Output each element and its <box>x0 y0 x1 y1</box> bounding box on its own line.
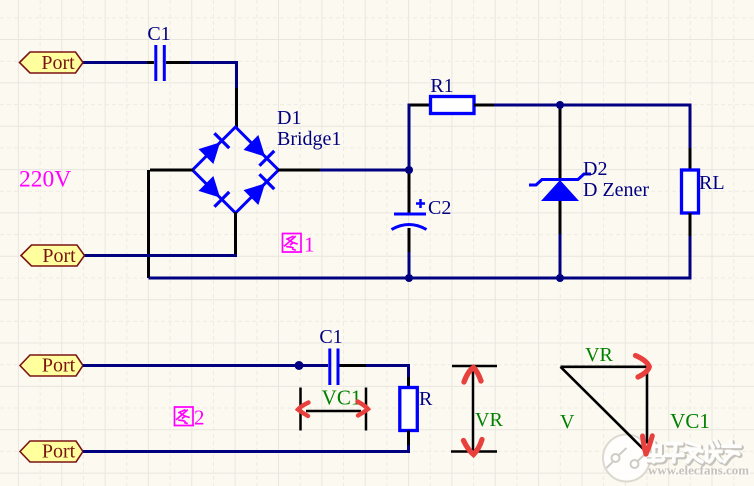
label D Zener <box>583 179 649 201</box>
junction D2 top node <box>556 101 564 109</box>
wire C1 to bridge top <box>190 63 237 91</box>
svg-text:C1: C1 <box>319 326 342 348</box>
resistor R1 <box>431 97 475 114</box>
svg-text:D1: D1 <box>277 107 301 129</box>
wire R1 to RL top rail <box>494 104 690 107</box>
vector line V diagonal <box>561 367 646 451</box>
svg-text:C2: C2 <box>428 197 451 219</box>
vector line VC1 <box>646 367 649 444</box>
pin bridge left <box>150 169 193 172</box>
svg-text:VR: VR <box>585 344 613 366</box>
wire C1b to R corner <box>366 366 409 378</box>
diode top-left <box>199 133 230 164</box>
junction C2 bottom node <box>405 274 413 282</box>
VC1 measure right bar <box>365 388 368 431</box>
port Port2 <box>21 245 85 267</box>
label tu2 (figure 2) <box>174 407 195 426</box>
port Port4 <box>20 441 83 463</box>
pin C2 bottom + wire to rail <box>408 228 411 278</box>
VR measure vertical <box>472 366 475 452</box>
capacitor C1 (bottom) <box>330 349 366 386</box>
label VC1 (bottom circuit) <box>322 386 362 410</box>
VC1 measure line <box>306 410 361 413</box>
label VR (dimension) <box>475 409 503 431</box>
wire RL branch top <box>689 104 692 149</box>
wire Port2 to bridge bottom <box>84 254 237 257</box>
diode bottom-right <box>244 174 275 205</box>
bridge rectifier D1 <box>193 127 279 213</box>
svg-text:1: 1 <box>304 233 315 257</box>
svg-text:Port: Port <box>42 441 76 463</box>
svg-text:VR: VR <box>475 409 503 431</box>
line bridge left down to rail <box>147 170 150 278</box>
red arrow VR top <box>464 368 481 383</box>
red arrow VR bottom <box>464 440 483 455</box>
wire Port1 to C1 <box>83 61 154 64</box>
VR measure bottom bar <box>451 450 497 453</box>
pin RL top <box>689 148 692 170</box>
svg-text:VC1: VC1 <box>322 386 362 410</box>
red arrow VC1 left <box>298 403 309 417</box>
svg-text:RL: RL <box>699 172 725 194</box>
svg-text:V: V <box>560 411 575 433</box>
port Port3 <box>20 355 83 377</box>
label RL <box>699 172 725 194</box>
pin C2 top <box>408 170 411 213</box>
label VC1 (vector) <box>670 409 710 433</box>
pin R bottom <box>407 431 410 446</box>
red arrow vector VC1 end <box>643 436 653 454</box>
svg-text:VC1: VC1 <box>670 409 710 433</box>
pin D2 bottom + wire <box>559 201 562 278</box>
svg-text:Port: Port <box>41 52 75 74</box>
port Port1 <box>20 52 84 74</box>
pin bridge bottom <box>234 212 237 255</box>
resistor RL <box>682 170 699 213</box>
resistor R <box>400 388 418 431</box>
pin D2 top <box>559 105 562 179</box>
label D1 <box>277 107 301 129</box>
svg-text:Port: Port <box>42 245 76 267</box>
wire Port3 to C1b <box>83 364 328 367</box>
label R <box>419 388 433 410</box>
VR measure top bar <box>452 365 497 368</box>
capacitor C1 (top) <box>147 45 190 81</box>
svg-text:2: 2 <box>194 406 205 430</box>
label Bridge1 <box>277 128 341 150</box>
label tu1 (figure 1) <box>282 234 303 253</box>
svg-text:220V: 220V <box>19 167 71 193</box>
pin bridge top <box>235 88 238 128</box>
svg-text:Bridge1: Bridge1 <box>277 128 341 150</box>
svg-text:D2: D2 <box>583 158 607 180</box>
zener diode D2 <box>529 174 591 201</box>
label C2 <box>428 197 451 219</box>
wire bridge right to C2 node <box>320 169 409 172</box>
diode bottom-left <box>199 176 230 207</box>
svg-text:Port: Port <box>42 355 76 377</box>
svg-text:D Zener: D Zener <box>583 179 649 201</box>
pin bridge right <box>278 169 320 172</box>
junction D2 bottom node <box>556 274 564 282</box>
svg-text:R: R <box>419 388 433 410</box>
svg-text:C1: C1 <box>147 23 170 45</box>
pin R top <box>407 377 410 388</box>
label R1 <box>430 75 453 97</box>
diode top-right <box>244 135 275 166</box>
label V (vector) <box>560 411 575 433</box>
wire bottom rail (top circuit) <box>149 277 691 280</box>
label C1 bottom <box>319 326 342 348</box>
red arrow vector VR end <box>636 356 650 378</box>
label C1 top <box>147 23 170 45</box>
label VR (vector) <box>585 344 613 366</box>
junction C2 top node <box>405 166 413 174</box>
VC1 measure left bar <box>299 388 302 431</box>
pin R1 right <box>474 104 494 107</box>
pin RL bottom + wire <box>689 213 692 280</box>
capacitor C2 polarized <box>392 199 427 230</box>
red arrow VC1 right <box>358 402 369 416</box>
watermark logo + text <box>603 435 751 482</box>
svg-text:www.elecfans.com: www.elecfans.com <box>648 463 749 478</box>
wire R bottom to rail <box>83 445 409 452</box>
label D2 <box>583 158 607 180</box>
svg-text:R1: R1 <box>430 75 453 97</box>
pin R1 left <box>410 104 431 107</box>
junction wire join <box>295 361 304 370</box>
vector line VR <box>561 365 650 368</box>
label 220V <box>19 167 71 193</box>
wire C2 node up to R1 rail <box>409 105 412 170</box>
